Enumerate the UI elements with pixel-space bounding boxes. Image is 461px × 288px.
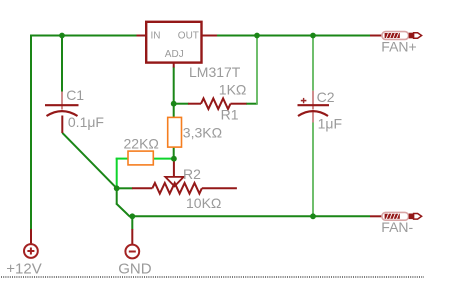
svg-text:FAN-: FAN- <box>381 219 413 235</box>
svg-text:1μF: 1μF <box>318 115 342 131</box>
svg-text:OUT: OUT <box>178 30 199 41</box>
svg-text:22KΩ: 22KΩ <box>124 136 159 152</box>
svg-text:R2: R2 <box>183 166 201 182</box>
svg-text:0.1μF: 0.1μF <box>68 114 104 130</box>
svg-text:R1: R1 <box>221 106 239 122</box>
svg-text:GND: GND <box>118 260 152 277</box>
svg-text:IN: IN <box>151 30 161 41</box>
svg-text:1KΩ: 1KΩ <box>219 82 247 98</box>
svg-text:C1: C1 <box>66 87 84 103</box>
svg-text:FAN+: FAN+ <box>381 39 416 55</box>
svg-text:C2: C2 <box>317 89 335 105</box>
svg-text:3,3KΩ: 3,3KΩ <box>183 124 222 140</box>
svg-text:+12V: +12V <box>6 260 41 277</box>
svg-text:ADJ: ADJ <box>165 49 184 60</box>
svg-text:LM317T: LM317T <box>189 64 241 80</box>
svg-text:10KΩ: 10KΩ <box>186 195 221 211</box>
